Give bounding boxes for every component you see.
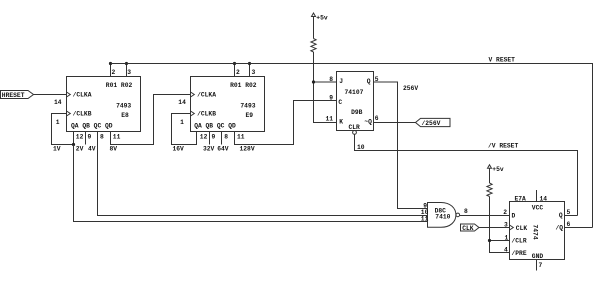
svg-text:1V: 1V — [53, 146, 61, 153]
svg-text:/CLKA: /CLKA — [73, 92, 92, 99]
svg-text:QA QB QC QD: QA QB QC QD — [71, 122, 113, 129]
junction at E9 pin 2 — [233, 62, 236, 65]
svg-text:R01 R02: R01 R02 — [106, 82, 133, 89]
svg-text:10: 10 — [357, 144, 365, 151]
svg-text:8: 8 — [464, 208, 468, 215]
svg-text:8V: 8V — [110, 146, 118, 153]
svg-text:9: 9 — [329, 95, 333, 102]
wire E7A VCC pin 14 — [536, 190, 538, 202]
svg-text:GND: GND — [532, 253, 544, 260]
net tag HRESET — [1, 91, 34, 100]
svg-text:D: D — [512, 213, 516, 220]
svg-text:8: 8 — [224, 134, 228, 141]
svg-text:9: 9 — [212, 134, 216, 141]
power +5v supply for 74107 J K — [312, 13, 328, 39]
svg-text:2: 2 — [112, 69, 116, 76]
svg-text:+5v: +5v — [316, 15, 328, 22]
counter E9 7493 — [191, 77, 265, 132]
svg-text:2V: 2V — [76, 146, 84, 153]
svg-text:14: 14 — [178, 99, 186, 106]
svg-text:/CLKB: /CLKB — [73, 110, 92, 117]
wire E7A /Q pin 6 to net V RESET — [565, 227, 593, 229]
svg-text:/V RESET: /V RESET — [488, 143, 518, 150]
wire stub E9 QB pin 9 net 32V — [209, 132, 211, 145]
svg-text:4V: 4V — [88, 146, 96, 153]
wire net 4V from E8 QC pin 8 to NAND pin 10 — [98, 132, 428, 216]
svg-text:R01 R02: R01 R02 — [230, 82, 257, 89]
svg-text:K: K — [339, 118, 343, 125]
wire E7A Q pin 5 to net /V RESET — [565, 215, 578, 217]
svg-text:1: 1 — [180, 119, 184, 126]
svg-text:/Q: /Q — [556, 225, 564, 232]
svg-text:7493: 7493 — [116, 102, 131, 109]
wire E9 pin 2 to V RESET — [234, 64, 236, 77]
counter E8 7493 — [67, 77, 141, 132]
wire pull-up to 74107 K pin 11 — [314, 52, 337, 123]
wire E9 QA pin 12 feedback to CLKB pin 1 — [172, 114, 197, 145]
svg-text:7493: 7493 — [240, 102, 255, 109]
svg-text:CLR: CLR — [349, 124, 361, 131]
power +5v supply for E7A clear preset — [488, 165, 504, 183]
svg-text:9: 9 — [88, 134, 92, 141]
svg-text:2: 2 — [503, 209, 507, 216]
svg-text:1: 1 — [505, 234, 509, 241]
svg-text:/256V: /256V — [422, 120, 441, 127]
net tag CLK — [461, 224, 480, 232]
svg-text:3: 3 — [504, 221, 508, 228]
svg-text:14: 14 — [54, 99, 62, 106]
svg-text:11: 11 — [326, 115, 334, 122]
wire E8 pin 2 to V RESET — [110, 64, 112, 77]
svg-text:VCC: VCC — [532, 205, 544, 212]
wire net 256V from 74107 Q pin 5 to NAND pin 9 — [374, 82, 428, 209]
net tag /256V — [416, 118, 451, 127]
svg-text:8: 8 — [329, 76, 333, 83]
wire 74107 /Q pin 6 to /256V tag — [374, 122, 416, 124]
svg-text:~Q: ~Q — [364, 118, 372, 125]
svg-text:2: 2 — [236, 69, 240, 76]
svg-text:1: 1 — [56, 119, 60, 126]
svg-text:J: J — [339, 78, 343, 85]
wire E8 pin 3 to V RESET — [126, 64, 128, 77]
svg-text:V RESET: V RESET — [489, 56, 516, 63]
svg-text:4: 4 — [504, 246, 508, 253]
junction at E9 pin 3 — [248, 62, 251, 65]
wire E9 pin 3 to V RESET — [249, 64, 251, 77]
wire CLK tag to E7A CLK pin 3 — [479, 227, 510, 229]
svg-text:32V: 32V — [203, 146, 215, 153]
wire E8 QA pin 12 feedback to CLKB pin 1 — [52, 114, 74, 145]
E7A pin numbers 14 2 3 1 4 5 6 7 — [503, 195, 570, 269]
svg-text:Q: Q — [367, 78, 371, 85]
svg-text:6: 6 — [567, 221, 571, 228]
E9 pin numbers 2 3 14 1 12 9 8 11 — [178, 69, 255, 141]
svg-text:12: 12 — [200, 134, 208, 141]
wire stub E8 QB pin 9 net 2V — [85, 132, 87, 145]
E8 pin numbers 2 3 14 1 12 9 8 11 — [54, 69, 131, 141]
wire E7A GND pin 7 — [536, 260, 538, 271]
flip-flop E7A 7474 — [510, 195, 565, 260]
svg-text:QA QB QC QD: QA QB QC QD — [194, 122, 236, 129]
74107 pin numbers 8 9 11 5 6 10 — [326, 76, 379, 151]
svg-text:64V: 64V — [217, 146, 229, 153]
svg-text:E9: E9 — [246, 112, 254, 119]
wire pull-up to E7A /CLR pin 1 — [490, 240, 510, 242]
svg-text:E8: E8 — [121, 112, 129, 119]
wire net V RESET — [111, 64, 593, 228]
flip-flop D9B 74107 — [337, 72, 374, 135]
svg-text:HRESET: HRESET — [2, 92, 25, 99]
NAND gate D8C 7410 — [428, 203, 460, 228]
svg-text:256V: 256V — [403, 85, 418, 92]
svg-text:/CLKA: /CLKA — [197, 92, 216, 99]
svg-text:7: 7 — [539, 262, 543, 269]
svg-text:11: 11 — [237, 134, 245, 141]
wire net 1V from E8 QA to NAND pin 11 — [74, 145, 428, 222]
svg-text:C: C — [338, 99, 342, 106]
wire pull-up to E7A /PRE pin 4 — [490, 197, 510, 253]
svg-text:14: 14 — [540, 195, 548, 202]
junction at E8 pin 3 — [125, 62, 128, 65]
svg-text:6: 6 — [375, 115, 379, 122]
svg-text:CLK: CLK — [462, 225, 474, 232]
svg-text:11: 11 — [113, 134, 121, 141]
svg-text:/CLKB: /CLKB — [197, 110, 216, 117]
svg-text:8: 8 — [100, 134, 104, 141]
junction at 74107 J pull-up — [312, 80, 315, 83]
wire HRESET to E8 CLKA pin 14 — [34, 94, 67, 96]
svg-text:E7A: E7A — [515, 195, 527, 202]
resistor pull-up to 74107 — [311, 39, 316, 53]
svg-text:7474: 7474 — [532, 225, 539, 240]
svg-text:/PRE: /PRE — [512, 250, 527, 257]
junction at E7A /CLR pull-up — [488, 239, 491, 242]
svg-text:16V: 16V — [173, 146, 185, 153]
junction E8 QA loop — [72, 143, 75, 146]
wire 74107 CLR pin 10 to net /V RESET — [355, 134, 578, 215]
wire net 128V from E9 QD pin 11 to 74107 C pin 9 — [235, 101, 337, 145]
svg-text:5: 5 — [567, 209, 571, 216]
svg-text:+5v: +5v — [492, 166, 504, 173]
wire pull-up to 74107 J pin 8 — [314, 81, 337, 83]
resistor pull-up to E7A — [487, 183, 492, 196]
wire stub E9 QC pin 8 net 64V — [221, 132, 223, 145]
wire net 8V from E8 QD pin 11 to E9 CLKA pin 14 — [111, 95, 191, 145]
svg-text:CLK: CLK — [516, 225, 528, 232]
svg-text:Q: Q — [559, 212, 563, 219]
svg-text:74107: 74107 — [345, 89, 364, 96]
wire NAND output pin 8 to E7A D pin 2 — [460, 215, 510, 217]
svg-text:12: 12 — [76, 134, 84, 141]
svg-text:D9B: D9B — [351, 109, 363, 116]
svg-text:7410: 7410 — [435, 213, 450, 220]
junction at E8 pin 2 — [109, 62, 112, 65]
svg-text:128V: 128V — [240, 146, 255, 153]
NAND pin numbers 9 10 11 8 — [421, 202, 468, 222]
svg-text:11: 11 — [421, 215, 429, 222]
svg-text:3: 3 — [127, 69, 131, 76]
svg-text:3: 3 — [252, 69, 256, 76]
svg-text:/CLR: /CLR — [512, 238, 527, 245]
